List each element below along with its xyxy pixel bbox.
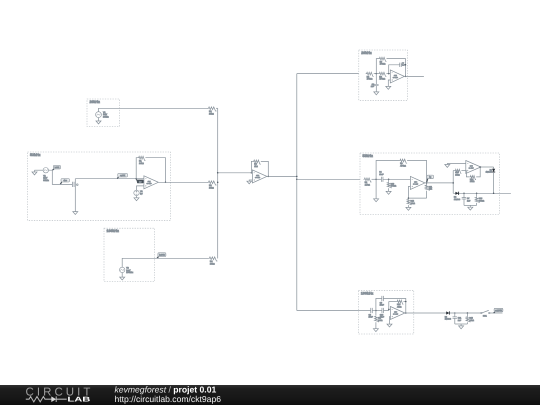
feedback resistor loop R16 43k — [389, 301, 397, 303]
svg-text:53kHz: 53kHz — [30, 153, 41, 157]
ground at U6 plus input — [389, 317, 392, 325]
ground below C2 node — [73, 212, 78, 215]
svg-text:OP-AMP: OP-AMP — [393, 314, 398, 316]
svg-text:1uF: 1uF — [467, 200, 471, 203]
node flag in100k — [157, 257, 159, 258]
switch SW1 — [481, 312, 482, 313]
node bus2 to 53k filter — [296, 179, 298, 181]
svg-text:53kHz: 53kHz — [43, 179, 49, 182]
feedback resistor loop R7 470k — [376, 59, 378, 74]
svg-text:sq53k: sq53k — [120, 174, 125, 177]
bus2 vertical — [296, 74, 298, 311]
feedback loop R1 10k over U1 — [135, 178, 137, 180]
bus1 vertical — [217, 108, 219, 258]
resistor R13 10k to U5 inverting — [453, 170, 454, 172]
svg-text:1N4148: 1N4148 — [454, 198, 460, 201]
ground below C5 — [374, 92, 379, 95]
resistor R12 10k to ground — [407, 199, 411, 205]
svg-text:in100k: in100k — [159, 254, 165, 257]
svg-text:10kΩ: 10kΩ — [469, 319, 474, 322]
svg-text:10kΩ: 10kΩ — [210, 262, 215, 265]
ground below V3 — [121, 273, 123, 278]
node flag out100k — [494, 312, 495, 313]
svg-text:100kHz: 100kHz — [361, 291, 374, 295]
dashed group box 100kHz filter — [358, 290, 413, 334]
svg-text:1N4148: 1N4148 — [445, 318, 451, 321]
node A1 — [376, 73, 378, 75]
svg-text:4.7kΩ: 4.7kΩ — [365, 183, 371, 186]
svg-text:OP2: OP2 — [256, 174, 259, 177]
voltage source V3 100kHz — [120, 267, 125, 272]
svg-text:OP3: OP3 — [394, 74, 397, 77]
resistor R18 10k — [466, 313, 468, 316]
dashed group box 20kHz source — [87, 99, 120, 127]
svg-text:20kHz: 20kHz — [361, 51, 372, 55]
svg-text:10kΩ: 10kΩ — [470, 180, 475, 183]
wire switch to out flag — [490, 312, 503, 314]
svg-text:390kΩ: 390kΩ — [479, 200, 485, 203]
output rail — [453, 192, 511, 194]
capacitor C10 series — [382, 308, 384, 313]
node A3 — [375, 310, 377, 312]
wire bus2 to 53k filter — [297, 178, 360, 180]
resistor R10 390k to ground — [388, 179, 390, 182]
svg-text:OP-AMP: OP-AMP — [469, 168, 474, 170]
dashed group box 53kHz filter — [360, 153, 499, 215]
node U3 inverting input — [388, 73, 390, 75]
svg-text:10nF: 10nF — [379, 173, 384, 176]
resistor R4 1k feedback — [253, 160, 261, 164]
svg-text:1uF: 1uF — [458, 319, 462, 322]
svg-text:inv: inv — [139, 180, 141, 183]
svg-text:1kΩ: 1kΩ — [254, 165, 258, 168]
voltage source V1 20kHz — [96, 112, 102, 118]
wire R4 to bus1 — [216, 257, 218, 259]
node R18 tap — [467, 312, 469, 314]
svg-text:OP5: OP5 — [470, 165, 473, 168]
wire C4 to U4 — [383, 178, 410, 180]
svg-text:LAB: LAB — [67, 397, 90, 404]
resistor R4 10k summing — [208, 257, 217, 261]
feedback loop R9 470k — [376, 161, 399, 180]
node C11 tap — [454, 312, 456, 314]
capacitor C8 series input — [371, 308, 373, 313]
wire to op-amp U1 — [75, 178, 144, 180]
node flag bp53k — [427, 179, 428, 183]
svg-text:470kΩ: 470kΩ — [367, 78, 373, 81]
voltage source V2 53kHz — [43, 168, 48, 173]
svg-text:5V: 5V — [140, 193, 143, 196]
svg-text:10kΩ: 10kΩ — [411, 202, 416, 205]
resistor R11 1k — [425, 185, 429, 191]
ground below V4 — [136, 196, 138, 198]
svg-text:470kΩ: 470kΩ — [380, 63, 386, 66]
wire V3 up and right — [122, 258, 208, 267]
wire ground to V2 — [35, 169, 44, 171]
wire U5 output to D1 — [481, 166, 494, 168]
wire R2 to bus1 — [216, 107, 218, 109]
feedback network R11 R12 — [408, 187, 410, 199]
node R15 tap — [476, 193, 478, 195]
feedback loop wire U2 — [251, 161, 252, 172]
capacitor C4 series — [381, 177, 383, 182]
svg-text:OP4: OP4 — [414, 180, 417, 183]
wire node A1 — [374, 73, 379, 75]
node U6 input stub — [388, 309, 390, 311]
svg-text:10kΩ: 10kΩ — [139, 162, 144, 165]
svg-text:C6: C6 — [402, 62, 404, 65]
svg-text:10nF: 10nF — [369, 316, 374, 319]
ground below R12 — [406, 207, 411, 210]
svg-text:53kHz: 53kHz — [363, 154, 374, 158]
footer bar — [0, 385, 540, 405]
wire U4 output to rectifier — [425, 182, 453, 184]
node D1 rail — [493, 193, 495, 195]
svg-text:OP-AMP: OP-AMP — [147, 183, 152, 185]
svg-text:470Ω: 470Ω — [378, 319, 383, 322]
wire D3 to switch — [449, 312, 480, 314]
svg-text:OP-AMP: OP-AMP — [255, 177, 260, 179]
dashed group box 100kHz source — [104, 228, 155, 281]
node bus1 tap — [217, 172, 219, 174]
wire U3 output stub — [404, 75, 424, 77]
wire bus1 to opamp U2 — [218, 172, 252, 174]
resistor R17 470 to ground — [375, 311, 377, 316]
op-amp U4 — [410, 176, 425, 189]
wire C8 to node A3 — [358, 310, 370, 312]
capacitor C5 1nF to ground — [375, 74, 377, 85]
op-amp U6 — [390, 307, 405, 320]
ground below R17 — [373, 329, 378, 332]
node U2 input junction — [251, 172, 253, 174]
capacitor C11 1uF — [454, 313, 456, 317]
ground below V1 — [98, 118, 100, 122]
ground at U3 plus input — [388, 80, 390, 86]
op-amp U3 — [390, 70, 404, 83]
dashed group box 20kHz filter — [359, 50, 408, 100]
svg-text:1kΩ: 1kΩ — [429, 188, 433, 191]
wire U6 output to D3 — [405, 312, 446, 314]
svg-text:43kΩ: 43kΩ — [397, 305, 402, 308]
node U6 output — [405, 312, 407, 314]
wire bus2 to 100k filter — [297, 310, 359, 312]
capacitor C7 1uF — [463, 193, 465, 197]
wire node A2 to ground — [375, 179, 377, 199]
svg-text:10kΩ: 10kΩ — [455, 174, 460, 177]
svg-text:OP1: OP1 — [148, 180, 151, 183]
svg-text:in53k: in53k — [55, 166, 60, 169]
node U5 output — [479, 166, 481, 168]
feedback resistor R14 under U5 — [466, 171, 470, 177]
dashed group box 53kHz generator — [28, 152, 171, 220]
node U1 output — [165, 182, 167, 184]
wire C10 to U6 jog — [384, 310, 389, 312]
resistor R3 10k — [208, 181, 217, 185]
node C6 to output vertical — [405, 64, 407, 66]
ground join rail RC — [464, 204, 477, 206]
svg-text:470kΩ: 470kΩ — [379, 78, 385, 81]
svg-text:390kΩ: 390kΩ — [391, 185, 397, 188]
svg-text:1N4148: 1N4148 — [486, 171, 492, 174]
ground below R10 — [386, 191, 391, 194]
ground at U2 plus input — [249, 180, 252, 181]
resistor R15 390k — [476, 193, 478, 196]
svg-text:SW1: SW1 — [483, 314, 487, 317]
wire R4 to U2 output — [261, 161, 269, 176]
wire U2 input stub — [251, 172, 252, 174]
svg-text:100kHz: 100kHz — [107, 229, 120, 233]
node A2 — [375, 179, 377, 181]
feedback capacitor loop C6 1nF — [389, 65, 400, 74]
svg-text:10kΩ: 10kΩ — [209, 186, 214, 189]
svg-text:bp: bp — [429, 176, 431, 179]
svg-text:http://circuitlab.com/ckt9ap6: http://circuitlab.com/ckt9ap6 — [115, 394, 222, 404]
wire V1 to R2 row — [99, 108, 209, 111]
wire bus2 to 20k filter — [297, 73, 359, 75]
node R10 tap — [388, 179, 390, 181]
input vertical — [452, 171, 454, 194]
resistor R6 470k — [378, 72, 386, 76]
svg-text:100kHz: 100kHz — [126, 271, 133, 274]
svg-text:470kΩ: 470kΩ — [400, 165, 406, 168]
diode D3 1N4148 — [446, 311, 449, 314]
dc source V4 at U1 plus input — [137, 186, 144, 190]
wire R6 to U3 — [386, 73, 390, 75]
node bus2 at U2 output — [296, 176, 298, 178]
svg-text:20kHz: 20kHz — [103, 116, 109, 119]
feedback capacitor loop C9 — [376, 299, 382, 311]
svg-text:OP6: OP6 — [394, 311, 397, 314]
svg-text:10nF: 10nF — [380, 304, 385, 307]
node U4 output — [426, 182, 428, 184]
resistor R5 470k input — [366, 72, 374, 76]
wire U1 output to R3 — [158, 181, 208, 183]
svg-text:OP-AMP: OP-AMP — [413, 184, 418, 186]
capacitor C2 series — [73, 182, 75, 187]
node flag in53k — [53, 169, 55, 170]
node C7 tap — [463, 193, 465, 195]
svg-text:20kHz: 20kHz — [90, 100, 101, 104]
diode D2 1N4148 on rail — [455, 192, 458, 195]
svg-text:out100k: out100k — [495, 309, 502, 312]
node flag square53k — [117, 177, 118, 178]
resistor R8 4.7k input — [364, 178, 372, 182]
node flag sine53k — [60, 182, 62, 184]
wire C2 junction vertical — [74, 179, 76, 212]
op-amp U2 — [252, 170, 267, 183]
svg-text:sine: sine — [63, 179, 66, 182]
ground join 100k RC — [455, 323, 468, 325]
wire V2 to C2 — [49, 170, 73, 184]
svg-text:10kΩ: 10kΩ — [209, 112, 214, 115]
op-amp U5 — [466, 161, 481, 174]
op-amp U1 — [144, 176, 159, 189]
wire R8 to node A2 — [372, 178, 382, 180]
node R16 loop joins — [405, 301, 407, 303]
resistor R2 10k — [208, 107, 217, 111]
open node circle — [77, 184, 79, 186]
ground at U5 plus input — [447, 162, 466, 164]
node bus1 at R3 — [217, 182, 219, 184]
jog vertical to U6 input — [388, 302, 390, 311]
node U3 output — [405, 76, 407, 78]
svg-text:OP-AMP: OP-AMP — [393, 77, 398, 79]
ground left of V2 — [34, 170, 36, 172]
node R12 junction — [408, 197, 410, 199]
diode D1 1N4148 down — [493, 167, 495, 169]
node input join — [452, 182, 454, 184]
wire U2 output to bus2 — [267, 175, 297, 177]
node U2 output — [268, 176, 270, 178]
ground below node A2 — [374, 199, 379, 202]
dark node flag at U1 input — [137, 179, 139, 183]
